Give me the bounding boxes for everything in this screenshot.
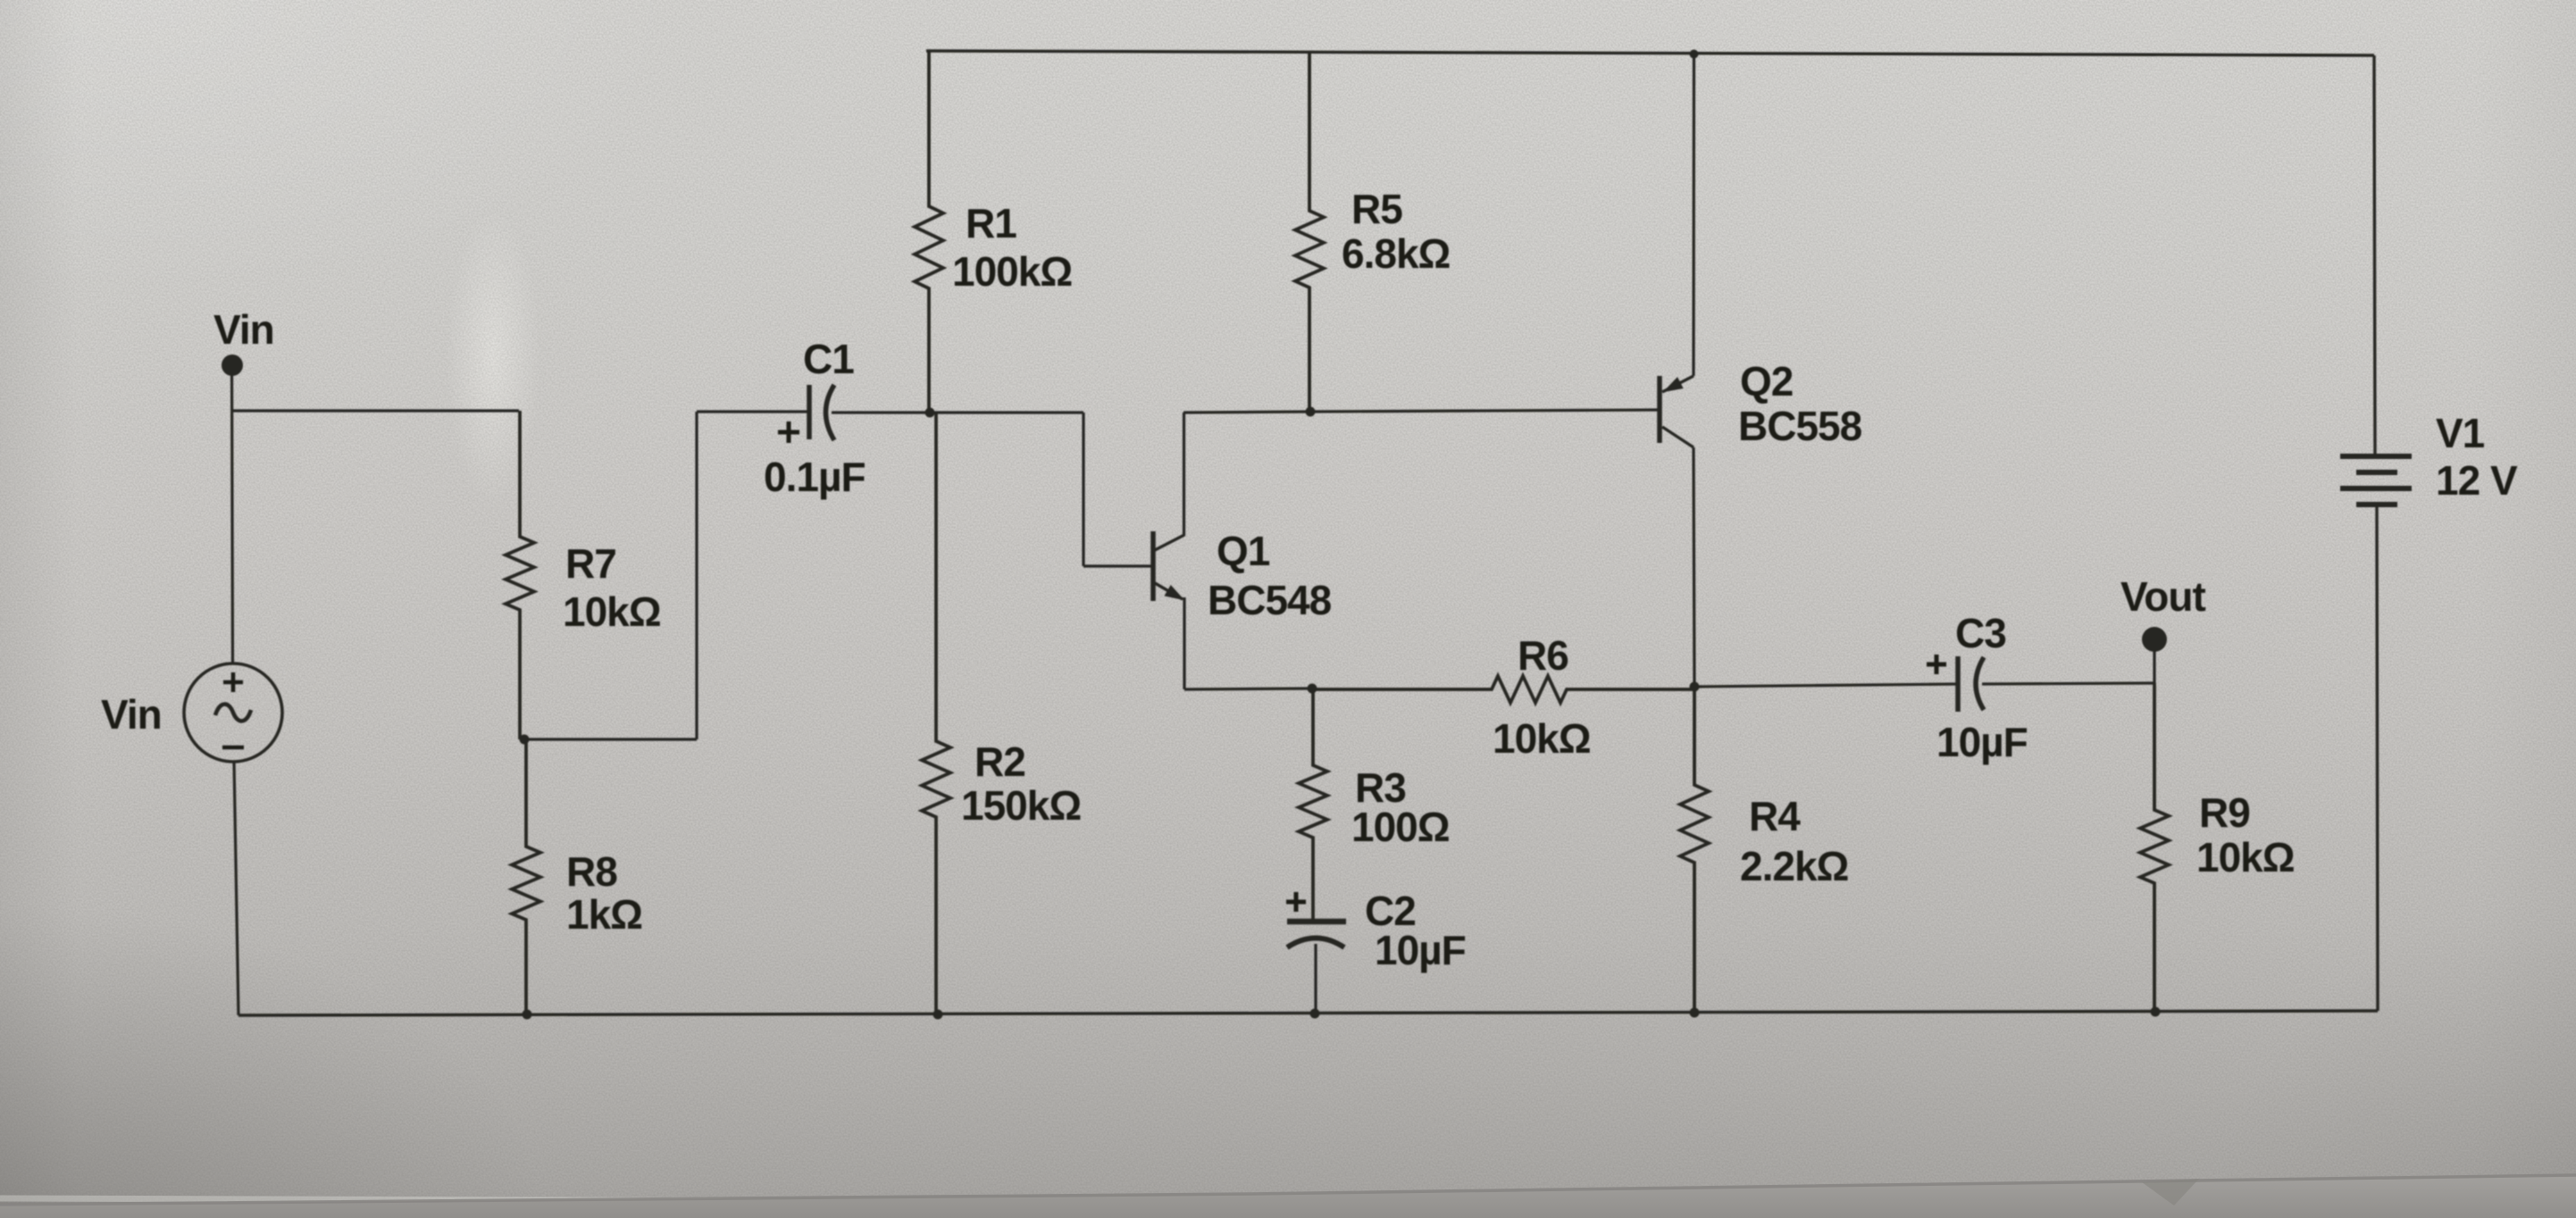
wire: R7/R8 junction right — [524, 738, 697, 740]
resistor R1 — [915, 51, 943, 413]
resistor R9 — [2140, 683, 2169, 1011]
svg-text:150kΩ: 150kΩ — [961, 782, 1081, 829]
label - of source — [222, 746, 244, 750]
svg-text:100kΩ: 100kΩ — [952, 248, 1072, 295]
wire: C1 right plate to base node — [832, 411, 1083, 413]
svg-text:10kΩ: 10kΩ — [2196, 834, 2295, 880]
resistor R6 — [1312, 676, 1694, 703]
svg-text:BC558: BC558 — [1738, 403, 1862, 449]
source Vin (AC source symbol) — [184, 663, 282, 762]
svg-text:C3: C3 — [1955, 610, 2006, 656]
capacitor C3 — [1958, 656, 1984, 712]
arrow: Q1 emitter (NPN) — [1165, 586, 1183, 600]
resistor R7 — [506, 411, 534, 739]
node: R7/R8 junction — [520, 735, 530, 745]
label + of source — [223, 672, 243, 692]
wire: base node down — [1082, 413, 1084, 566]
wire: Vout dot down to tee — [2153, 639, 2155, 683]
svg-text:V1: V1 — [2436, 410, 2485, 456]
node: R8 ground dot — [523, 1010, 532, 1020]
node: Q1E/R3/R6 junction — [1308, 684, 1317, 694]
svg-text:C1: C1 — [803, 336, 854, 382]
svg-text:R6: R6 — [1518, 632, 1568, 679]
wire: top supply rail — [926, 51, 2374, 55]
svg-text:R4: R4 — [1749, 793, 1801, 839]
node: Vout terminal dot — [2142, 627, 2167, 652]
label + of C1 — [778, 421, 799, 443]
svg-text:R7: R7 — [565, 540, 616, 587]
wire: source - down to ground rail — [234, 762, 238, 1015]
wire: into C1 left plate — [697, 410, 809, 413]
svg-text:R1: R1 — [966, 200, 1016, 246]
node: R9 ground dot — [2151, 1007, 2161, 1017]
svg-text:10kΩ: 10kΩ — [1493, 715, 1591, 762]
label + of C2 — [1286, 892, 1306, 912]
svg-text:R9: R9 — [2199, 789, 2250, 836]
wire: Vin node horizontal to R7 — [231, 409, 519, 412]
wire: Q1 emitter to R3 node — [1184, 688, 1312, 689]
wire: bottom ground rail — [238, 1011, 2378, 1015]
wire: Q1 collector to R5 node — [1183, 412, 1310, 413]
capacitor C2 — [1287, 922, 1346, 947]
svg-text:10µF: 10µF — [1936, 719, 2028, 765]
svg-text:12 V: 12 V — [2436, 457, 2518, 504]
svg-text:Q2: Q2 — [1740, 358, 1793, 405]
node: Q2 emitter / rail junction — [1690, 50, 1699, 59]
wire: Q1 collector up — [1183, 413, 1185, 536]
svg-text:6.8kΩ: 6.8kΩ — [1342, 230, 1451, 277]
wire: up to C1 input — [695, 412, 698, 739]
label + of C3 — [1927, 655, 1946, 674]
svg-text:100Ω: 100Ω — [1351, 804, 1450, 850]
transistor Q1 BC548 — [1153, 531, 1184, 601]
svg-text:R2: R2 — [974, 738, 1025, 785]
resistor R3 — [1299, 688, 1327, 919]
wire: R5 node to Q2 base — [1310, 410, 1658, 412]
svg-text:Vin: Vin — [213, 306, 274, 353]
svg-text:BC548: BC548 — [1208, 577, 1332, 623]
svg-text:10kΩ: 10kΩ — [563, 588, 661, 635]
svg-text:0.1µF: 0.1µF — [764, 454, 866, 500]
wire: Vin node down to source + — [232, 365, 233, 664]
wire: C3 to Vout tee — [1982, 683, 2154, 684]
svg-text:Q1: Q1 — [1217, 528, 1270, 574]
svg-text:Vout: Vout — [2120, 573, 2205, 620]
resistor R2 — [922, 413, 950, 1014]
node: Vin terminal dot — [222, 355, 243, 376]
node: R5/Q1C/Q2B junction — [1306, 407, 1316, 417]
svg-text:Vin: Vin — [101, 691, 162, 738]
wire: C2 bottom to ground rail — [1314, 944, 1317, 1014]
svg-text:R5: R5 — [1351, 186, 1402, 232]
node: Q2C/R6/R4/C3 junction — [1690, 682, 1700, 692]
svg-text:1kΩ: 1kΩ — [566, 891, 642, 938]
wire: Q1 emitter down — [1183, 597, 1185, 689]
node: R2 ground dot — [933, 1010, 943, 1020]
node: R1/R2/C1 junction — [925, 408, 935, 418]
svg-text:10µF: 10µF — [1375, 927, 1466, 973]
wire: Q2 collector down — [1694, 447, 1694, 687]
node: C2 ground dot — [1310, 1009, 1320, 1019]
wire: Q2 emitter to top rail — [1692, 54, 1695, 376]
node: R4 ground dot — [1690, 1008, 1700, 1018]
resistor R5 — [1295, 53, 1324, 412]
resistor R8 — [512, 739, 540, 1014]
svg-text:R8: R8 — [566, 848, 617, 895]
svg-text:2.2kΩ: 2.2kΩ — [1740, 843, 1849, 889]
resistor R4 — [1680, 687, 1709, 1012]
capacitor C1 — [809, 385, 834, 440]
arrow: Q2 emitter (PNP) — [1664, 378, 1683, 392]
wire: to Q1 base — [1083, 564, 1151, 567]
wire: collector node to C3 — [1694, 684, 1958, 687]
transistor Q2 BC558 — [1660, 376, 1694, 447]
battery V1 — [2340, 55, 2412, 1011]
